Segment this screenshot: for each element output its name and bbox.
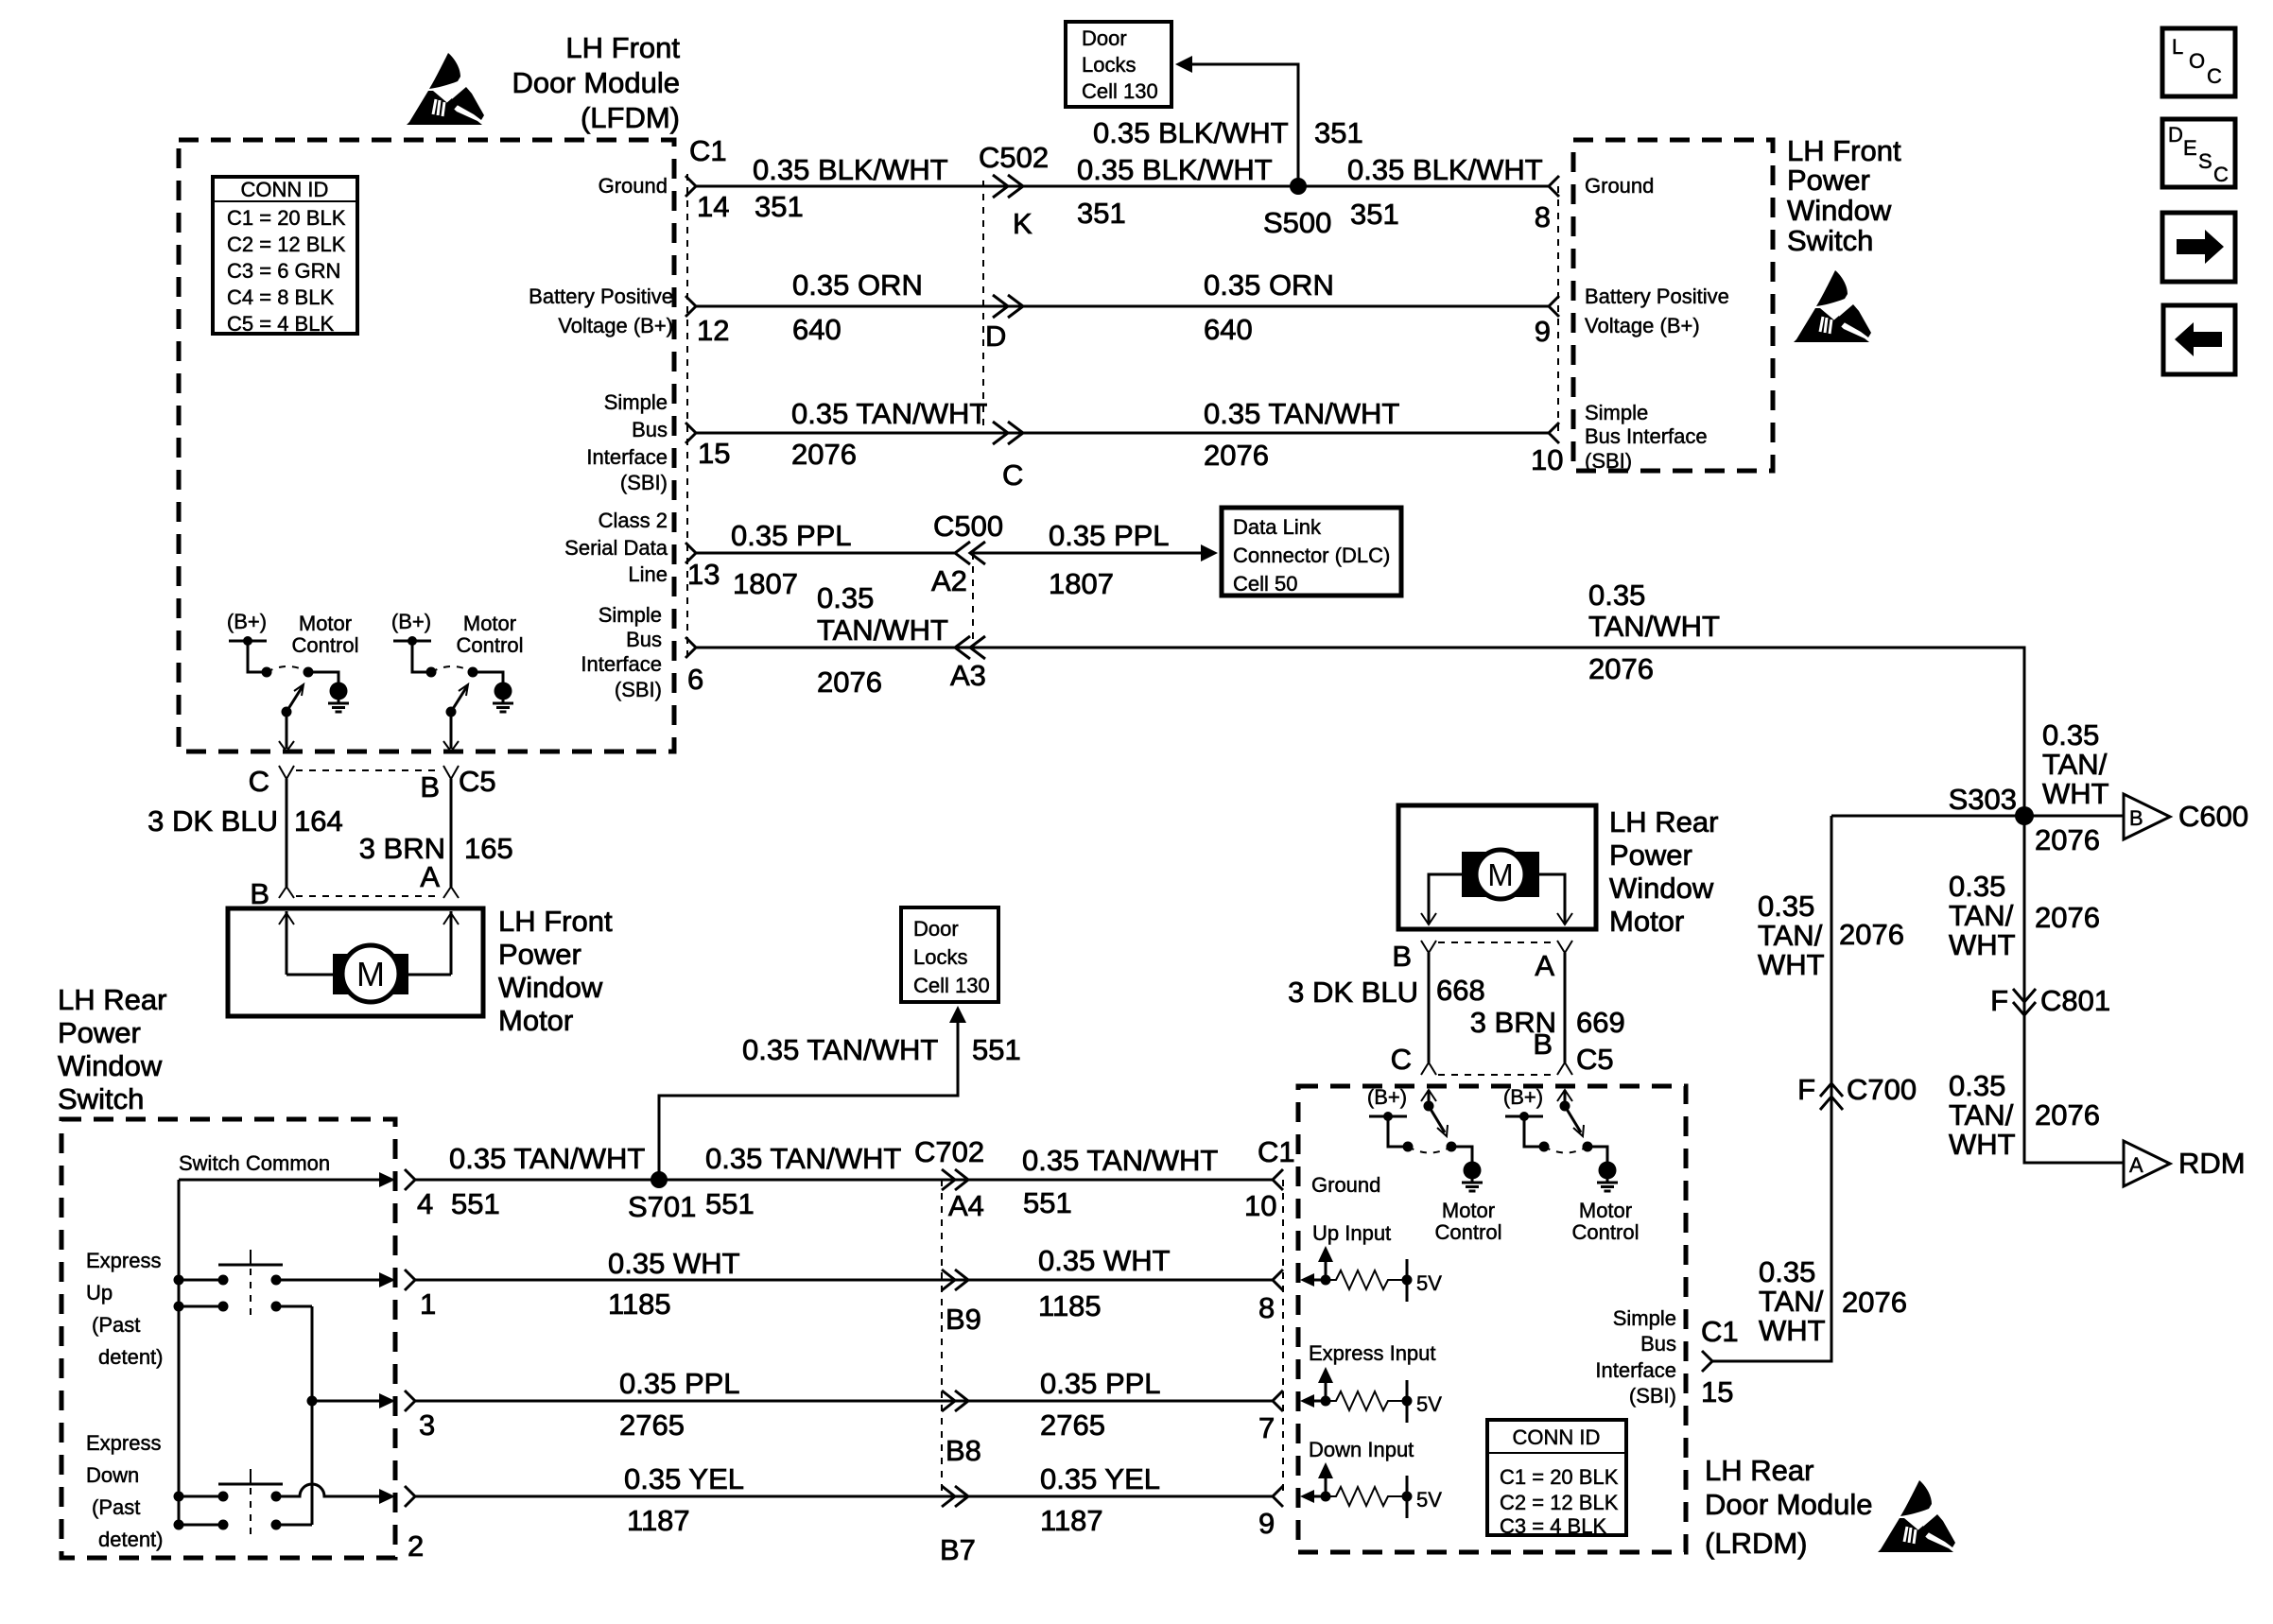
label 0.35 TAN/WHT above C801 [1949, 870, 2016, 961]
svg-text:351: 351 [1077, 197, 1126, 230]
svg-text:C2 = 12 BLK: C2 = 12 BLK [1500, 1491, 1619, 1514]
svg-text:C1 = 20 BLK: C1 = 20 BLK [227, 206, 346, 230]
pin 3 chevron [405, 1391, 415, 1411]
svg-text:Connector (DLC): Connector (DLC) [1233, 544, 1390, 567]
svg-text:A3: A3 [950, 659, 986, 692]
LRDM switch A B+ lead [1388, 1116, 1408, 1147]
svg-text:C3 = 4 BLK: C3 = 4 BLK [1500, 1514, 1606, 1538]
svg-text:Control: Control [292, 633, 359, 657]
svg-text:351: 351 [1314, 116, 1363, 149]
svg-text:7: 7 [1258, 1411, 1275, 1444]
svg-text:C500: C500 [933, 510, 1003, 543]
svg-text:Simple: Simple [604, 390, 668, 414]
switch B blade [446, 684, 469, 717]
svg-text:0.35: 0.35 [1949, 1069, 2005, 1102]
svg-text:WHT: WHT [1949, 928, 2016, 961]
svg-text:C1: C1 [1701, 1315, 1739, 1348]
connector C801 chevrons [2013, 989, 2036, 1015]
LRDM switch A entry wire with up arrow [1421, 1090, 1436, 1106]
svg-text:F: F [1990, 984, 2008, 1017]
svg-text:Data Link: Data Link [1233, 515, 1322, 539]
svg-text:1807: 1807 [733, 567, 798, 600]
LRDM switch B ground lead [1588, 1147, 1607, 1162]
svg-text:TAN/: TAN/ [1949, 1098, 2014, 1132]
pin 12 Battery Positive Voltage label [529, 285, 673, 337]
svg-text:0.35: 0.35 [1588, 579, 1645, 612]
svg-text:Door: Door [913, 917, 959, 941]
switch A output wire with arrow [279, 712, 294, 752]
svg-text:640: 640 [792, 313, 842, 346]
wire 3 DK BLU 164 [286, 779, 288, 887]
svg-text:O: O [2189, 49, 2205, 73]
switch B dashed arc [431, 666, 473, 672]
LRDM switch A contact 1 [1403, 1142, 1414, 1152]
switch A B+ bar [229, 636, 267, 646]
svg-text:0.35 TAN/WHT: 0.35 TAN/WHT [1022, 1144, 1218, 1177]
svg-text:Simple: Simple [599, 603, 662, 627]
C500 chevrons wire4 [955, 542, 985, 564]
svg-text:1807: 1807 [1049, 567, 1114, 600]
svg-text:2076: 2076 [817, 665, 882, 699]
svg-text:Power: Power [498, 938, 581, 971]
svg-text:C1: C1 [689, 134, 727, 167]
label 0.35 TAN/WHT above C700 [1758, 890, 1825, 981]
svg-text:1187: 1187 [627, 1504, 690, 1537]
svg-text:LH Rear: LH Rear [1609, 805, 1718, 838]
arrowhead into door locks box [1175, 56, 1192, 73]
rear motor armature [1462, 850, 1539, 899]
svg-text:4: 4 [417, 1187, 433, 1220]
LH rear power window switch dashed box [61, 1119, 395, 1558]
svg-text:B: B [250, 877, 269, 910]
switch A ground lead [308, 672, 338, 682]
LRDM pin 9 chevron [1273, 1486, 1283, 1507]
switch B B+ bar [393, 636, 431, 646]
svg-text:C700: C700 [1847, 1073, 1917, 1106]
svg-text:Locks: Locks [913, 945, 967, 969]
LRDM switch A contact 2 [1447, 1142, 1457, 1152]
svg-text:2076: 2076 [791, 438, 857, 471]
switch A B+ lead [248, 641, 267, 672]
wire 0.35 BLK/WHT 351 LFDM pin14 to switch pin8 [696, 185, 1549, 188]
junction dot pin3 [307, 1396, 318, 1407]
svg-text:0.35 WHT: 0.35 WHT [1038, 1244, 1171, 1277]
svg-text:12: 12 [697, 314, 729, 347]
data link connector DLC box [1222, 508, 1401, 596]
svg-text:0.35: 0.35 [1949, 870, 2005, 903]
svg-text:B7: B7 [940, 1533, 976, 1566]
express input resistor network [1300, 1367, 1413, 1423]
svg-text:(B+): (B+) [227, 610, 267, 633]
LRDM SBI label [1595, 1306, 1676, 1408]
LH Front Power Window Switch dashed box [1573, 140, 1773, 471]
svg-text:351: 351 [1350, 198, 1399, 231]
svg-text:3: 3 [419, 1408, 435, 1442]
C702 chevrons wire8 [942, 1391, 968, 1411]
LH rear power window motor box [1398, 805, 1596, 929]
express up row1 left segment [179, 1275, 229, 1286]
svg-text:164: 164 [294, 804, 343, 838]
LFDM module dashed box [179, 140, 674, 752]
LRDM switch B contact 2 [1583, 1142, 1593, 1152]
svg-text:A2: A2 [931, 564, 967, 597]
svg-text:TAN/: TAN/ [2042, 748, 2108, 781]
door locks cell 130 box top [1066, 22, 1171, 107]
svg-text:669: 669 [1576, 1006, 1625, 1039]
svg-text:Motor: Motor [1609, 905, 1684, 938]
express up label [86, 1249, 164, 1369]
svg-text:M: M [1487, 857, 1514, 892]
svg-text:0.35 BLK/WHT: 0.35 BLK/WHT [1077, 153, 1273, 186]
svg-text:RDM: RDM [2178, 1147, 2246, 1180]
svg-text:Interface: Interface [581, 652, 662, 676]
svg-text:C: C [1391, 1043, 1412, 1076]
wire 2765 pin3 to LRDM pin7 [415, 1400, 1273, 1403]
svg-text:K: K [1013, 207, 1032, 240]
svg-text:0.35: 0.35 [817, 581, 874, 614]
svg-text:LH Front: LH Front [1787, 134, 1901, 167]
svg-text:Window: Window [1609, 872, 1714, 905]
svg-text:2765: 2765 [619, 1408, 685, 1442]
svg-text:TAN/WHT: TAN/WHT [817, 613, 948, 647]
svg-text:1185: 1185 [1038, 1289, 1102, 1322]
svg-text:(B+): (B+) [1367, 1085, 1407, 1109]
LRDM switch B blade [1560, 1101, 1585, 1137]
express up row1 bus dot [174, 1275, 184, 1286]
svg-text:Ground: Ground [1585, 174, 1654, 198]
pin 12 chevron [685, 296, 696, 317]
svg-text:Door Module: Door Module [512, 66, 680, 99]
svg-text:LH Rear: LH Rear [1705, 1454, 1813, 1487]
svg-text:13: 13 [687, 558, 720, 591]
svg-text:TAN/: TAN/ [1949, 899, 2014, 932]
svg-text:0.35 TAN/WHT: 0.35 TAN/WHT [791, 397, 987, 430]
svg-text:Motor: Motor [498, 1004, 573, 1037]
wire 1185 pin1 to LRDM pin8 [415, 1279, 1273, 1282]
svg-text:D: D [2168, 123, 2183, 147]
svg-text:Switch: Switch [58, 1082, 144, 1115]
express down row1 left segment [179, 1492, 229, 1502]
switch A blade [282, 684, 304, 717]
svg-text:C: C [2207, 64, 2222, 88]
internal vertical link wire [311, 1306, 314, 1525]
svg-text:Express: Express [86, 1249, 161, 1272]
svg-text:14: 14 [697, 190, 729, 223]
wire 0.35 PPL 1807 pin13 to C500 [696, 552, 955, 555]
svg-text:WHT: WHT [1949, 1128, 2016, 1161]
rear connector pin A socket top [1557, 941, 1572, 953]
svg-text:C2 = 12 BLK: C2 = 12 BLK [227, 233, 346, 256]
svg-text:Battery Positive: Battery Positive [1585, 285, 1729, 308]
up input resistor network [1300, 1246, 1413, 1302]
express down row2 bus dot [174, 1520, 184, 1530]
CONN ID table LRDM [1487, 1420, 1626, 1538]
LRDM module dashed box [1298, 1086, 1686, 1552]
svg-text:0.35: 0.35 [1758, 890, 1814, 923]
wire 3 BRN 165 [450, 779, 453, 887]
express up row2 right segment [271, 1302, 313, 1312]
rear connector pin B socket bottom [1557, 1063, 1572, 1075]
LRDM pin 10 chevron [1273, 1169, 1283, 1190]
svg-text:2076: 2076 [1842, 1286, 1907, 1319]
svg-text:Down Input: Down Input [1309, 1438, 1414, 1461]
svg-text:Motor: Motor [299, 612, 352, 635]
front motor connector dashed bottom [296, 895, 442, 897]
off-page triangle B C600 [2124, 794, 2248, 839]
svg-text:B: B [420, 770, 440, 803]
svg-text:0.35 PPL: 0.35 PPL [619, 1367, 740, 1400]
express down row2 right segment [271, 1520, 313, 1530]
switch A ground [328, 682, 349, 713]
svg-text:A: A [2129, 1153, 2143, 1177]
svg-text:Voltage (B+): Voltage (B+) [1585, 314, 1700, 337]
down input resistor network [1300, 1462, 1413, 1518]
pin 13 chevron [685, 543, 696, 563]
ESD symbol LRDM [1878, 1480, 1955, 1552]
svg-text:0.35 YEL: 0.35 YEL [1040, 1462, 1160, 1495]
wire S303 down to C801 and RDM [2024, 816, 2124, 1163]
pin 15 SBI label [586, 390, 668, 494]
svg-text:Door: Door [1082, 26, 1127, 50]
svg-text:165: 165 [464, 832, 513, 865]
LRDM switch A ground [1462, 1162, 1483, 1192]
svg-text:0.35 PPL: 0.35 PPL [1049, 519, 1170, 552]
svg-text:551: 551 [451, 1187, 500, 1220]
C502 chevrons wire3 [993, 422, 1023, 444]
wire 0.35 TAN/WHT 2076 pin6 long to S303 [696, 648, 2024, 816]
svg-text:C5: C5 [459, 765, 496, 798]
connector C702 dashed line [941, 1180, 943, 1496]
connector C1 face line at LFDM [686, 174, 688, 662]
svg-text:S701: S701 [628, 1190, 696, 1223]
LRDM connector face line [1282, 1180, 1284, 1496]
svg-text:9: 9 [1535, 315, 1551, 348]
wire 3 DK BLU 668 [1428, 953, 1431, 1063]
switch pin 9 chevron [1549, 296, 1559, 317]
svg-text:A: A [1535, 949, 1554, 982]
svg-text:(Past: (Past [92, 1495, 140, 1519]
svg-text:2076: 2076 [1588, 652, 1654, 685]
svg-text:Window: Window [498, 971, 603, 1004]
express up row2 left segment [179, 1302, 229, 1312]
switch B Motor Control label [457, 612, 524, 657]
ESD symbol LFDM [407, 53, 484, 125]
svg-text:Bus Interface: Bus Interface [1585, 424, 1708, 448]
svg-text:5V: 5V [1416, 1392, 1442, 1416]
svg-text:640: 640 [1204, 313, 1253, 346]
svg-text:Class 2: Class 2 [599, 509, 668, 532]
svg-text:C1 = 20 BLK: C1 = 20 BLK [1500, 1465, 1619, 1489]
front motor pin A socket bottom [443, 887, 459, 898]
svg-text:551: 551 [705, 1187, 755, 1220]
svg-text:(SBI): (SBI) [615, 678, 662, 701]
rear connector dashed bottom [1438, 1074, 1555, 1076]
svg-text:551: 551 [1023, 1186, 1072, 1219]
pin 14 chevron [685, 176, 696, 197]
express up contact bar [218, 1250, 283, 1318]
svg-text:C600: C600 [2178, 800, 2248, 833]
arrowhead up into door locks mid box [949, 1006, 966, 1023]
svg-text:S500: S500 [1263, 206, 1331, 239]
svg-text:LH Front: LH Front [565, 31, 680, 64]
svg-text:Power: Power [1609, 838, 1692, 872]
svg-text:B: B [1392, 940, 1412, 973]
svg-text:TAN/WHT: TAN/WHT [1588, 610, 1720, 643]
LRDM switch B contact 1 [1539, 1142, 1550, 1152]
svg-text:0.35 BLK/WHT: 0.35 BLK/WHT [1093, 116, 1289, 149]
svg-text:Power: Power [1787, 164, 1870, 197]
svg-text:0.35 ORN: 0.35 ORN [792, 268, 923, 302]
svg-text:0.35 TAN/WHT: 0.35 TAN/WHT [1204, 397, 1399, 430]
svg-text:Down: Down [86, 1463, 139, 1487]
svg-text:detent): detent) [98, 1345, 164, 1369]
front motor lead A with up arrow [443, 911, 459, 975]
svg-text:C4 = 8 BLK: C4 = 8 BLK [227, 285, 334, 309]
pin 1 chevron [405, 1270, 415, 1290]
svg-text:(B+): (B+) [391, 610, 431, 633]
svg-text:0.35 ORN: 0.35 ORN [1204, 268, 1334, 302]
svg-text:Control: Control [1572, 1220, 1640, 1244]
svg-text:Cell 130: Cell 130 [913, 974, 990, 997]
svg-text:S303: S303 [1949, 783, 2017, 816]
CONN ID table LFDM [213, 177, 357, 336]
svg-text:CONN ID: CONN ID [241, 178, 329, 201]
svg-text:Ground: Ground [599, 174, 668, 198]
svg-text:detent): detent) [98, 1528, 164, 1551]
arrowhead into DLC box [1201, 544, 1218, 561]
rear connector dashed top [1438, 942, 1555, 943]
door locks cell 130 box mid [901, 907, 998, 1002]
svg-text:668: 668 [1436, 974, 1485, 1007]
front motor connector pin C5 socket [443, 766, 459, 779]
svg-text:Switch Common: Switch Common [179, 1151, 330, 1175]
wire S303 to C600 triangle [2024, 815, 2124, 818]
switch B ground [493, 682, 513, 713]
svg-text:C801: C801 [2040, 984, 2110, 1017]
svg-text:(SBI): (SBI) [1585, 449, 1632, 473]
pin 15 chevron [685, 423, 696, 443]
svg-text:10: 10 [1531, 443, 1563, 476]
pin 13 Class 2 Serial Data Line label [564, 509, 668, 586]
svg-text:2076: 2076 [1204, 439, 1269, 472]
svg-text:B9: B9 [946, 1303, 981, 1336]
switch pin 10 label [1585, 401, 1708, 473]
svg-text:C1: C1 [1258, 1135, 1295, 1168]
rear motor lead A with down arrow [1539, 874, 1572, 924]
wire 0.35 ORN 640 pin12 to switch pin9 [696, 305, 1549, 308]
svg-text:C5 = 4 BLK: C5 = 4 BLK [227, 312, 334, 336]
svg-text:F: F [1797, 1073, 1815, 1106]
ESD symbol front switch [1794, 270, 1871, 342]
svg-text:1185: 1185 [608, 1287, 671, 1321]
svg-text:Express: Express [86, 1431, 161, 1455]
switch pin 9 label [1585, 285, 1729, 337]
LRDM pin 8 chevron [1273, 1270, 1283, 1290]
svg-text:A4: A4 [948, 1189, 984, 1222]
wire 1187 pin2 to LRDM pin9 [415, 1495, 1273, 1498]
LRDM switch B ground [1597, 1162, 1618, 1192]
splice S500 dot [1290, 178, 1307, 195]
C702 chevrons wire7 [942, 1270, 968, 1290]
wire S303 to left branch [1831, 815, 2024, 818]
pin 6 SBI label [581, 603, 662, 701]
svg-text:9: 9 [1258, 1507, 1275, 1540]
switch common vertical bus [178, 1180, 181, 1525]
svg-text:8: 8 [1258, 1291, 1275, 1324]
svg-text:Control: Control [457, 633, 524, 657]
svg-text:Locks: Locks [1082, 53, 1136, 77]
svg-text:0.35 TAN/WHT: 0.35 TAN/WHT [742, 1033, 938, 1066]
svg-text:Bus: Bus [626, 628, 662, 651]
svg-text:Battery Positive: Battery Positive [529, 285, 673, 308]
svg-text:E: E [2183, 136, 2197, 160]
splice S303 dot [2015, 806, 2034, 825]
LRDM switch B entry wire with up arrow [1557, 1090, 1572, 1106]
svg-text:Up: Up [86, 1281, 113, 1304]
LRDM switch B Motor Control label [1572, 1199, 1640, 1244]
svg-text:WHT: WHT [1758, 948, 1825, 981]
svg-text:8: 8 [1535, 200, 1551, 233]
svg-text:(Past: (Past [92, 1313, 140, 1337]
svg-text:15: 15 [1701, 1375, 1733, 1408]
C502 chevrons wire1 [993, 175, 1023, 198]
svg-text:WHT: WHT [2042, 777, 2109, 810]
svg-text:Motor: Motor [463, 612, 516, 635]
wire label 0.35 TAN/WHT right of center [1588, 579, 1720, 643]
front motor connector pin C socket [279, 766, 294, 779]
switch connector face line [1557, 186, 1559, 433]
svg-text:351: 351 [755, 190, 804, 223]
wire branch from S500 up to door locks [1190, 64, 1298, 186]
svg-text:0.35 WHT: 0.35 WHT [608, 1247, 740, 1280]
rear connector pin B socket top [1421, 941, 1436, 953]
C702 chevrons wire9 [942, 1486, 968, 1507]
svg-text:Bus: Bus [1640, 1332, 1676, 1356]
switch B ground lead [473, 672, 503, 682]
svg-text:C: C [249, 765, 269, 798]
LRDM switch B B+ bar [1505, 1112, 1543, 1121]
express up row1 right segment with arrow [271, 1272, 396, 1287]
svg-text:Cell 130: Cell 130 [1082, 79, 1158, 103]
wire 551 branch from S701 to door locks [659, 1021, 958, 1180]
svg-text:C3 = 6 GRN: C3 = 6 GRN [227, 259, 340, 283]
express down row1 right segment with hop and arrow [271, 1484, 396, 1504]
svg-text:0.35 BLK/WHT: 0.35 BLK/WHT [1347, 153, 1543, 186]
svg-text:Power: Power [58, 1016, 141, 1049]
right arrow nav box [2162, 213, 2235, 282]
svg-text:2076: 2076 [1839, 918, 1904, 951]
svg-text:Cell 50: Cell 50 [1233, 572, 1297, 596]
pin 4 chevron [405, 1169, 415, 1190]
svg-text:WHT: WHT [1759, 1314, 1826, 1347]
front motor connector dashed top [296, 769, 442, 771]
front motor leads to armature [286, 974, 451, 976]
connector C700 chevrons [1820, 1083, 1843, 1110]
express down label [86, 1431, 164, 1551]
svg-text:0.35 TAN/WHT: 0.35 TAN/WHT [705, 1142, 901, 1175]
LH rear power window motor title [1609, 805, 1718, 938]
rear connector pin C socket bottom [1421, 1063, 1436, 1075]
wire 0.35 TAN/WHT 2076 pin15 to switch pin10 [696, 432, 1549, 435]
svg-text:551: 551 [972, 1033, 1021, 1066]
svg-text:Switch: Switch [1787, 224, 1873, 257]
LRDM switch A blade [1424, 1101, 1449, 1137]
pin 6 chevron [685, 637, 696, 658]
svg-text:B: B [2129, 806, 2143, 830]
wire 2076 pin15 to S303 [1712, 816, 1831, 1361]
svg-text:0.35 YEL: 0.35 YEL [624, 1462, 744, 1495]
wire 0.35 PPL to DLC [973, 552, 1205, 555]
